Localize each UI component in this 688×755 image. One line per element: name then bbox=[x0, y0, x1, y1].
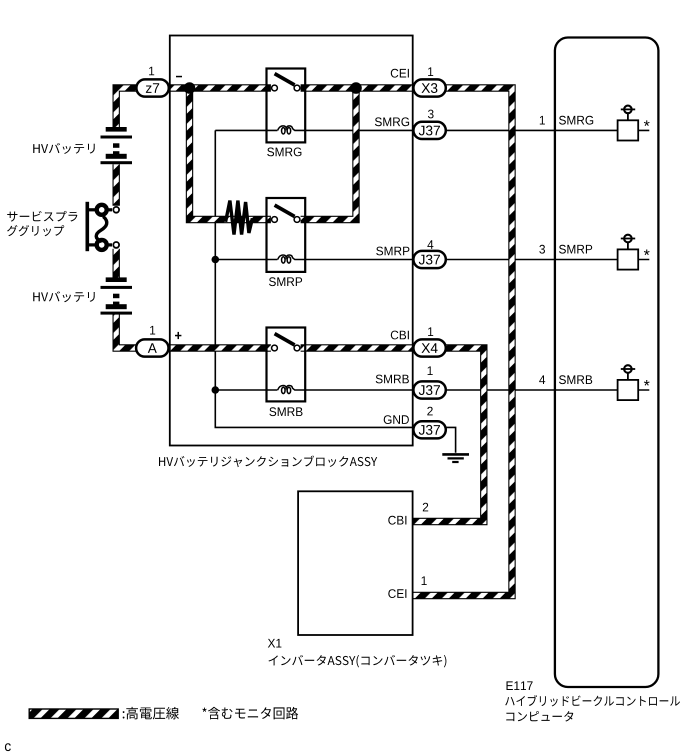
node junction dot SMRP coil bbox=[212, 256, 220, 264]
label GND (GND row label) bbox=[384, 415, 409, 424]
label 4 (E117 pin 4 SMRB) bbox=[539, 375, 545, 384]
service plug grip bbox=[87, 202, 119, 251]
wire SMRG right contact to X3 (high voltage) bbox=[301, 84, 415, 91]
wire service plug to battery2 (high voltage) bbox=[112, 249, 119, 278]
resistor (precharge) bbox=[226, 201, 253, 235]
E117 computer box bbox=[555, 38, 659, 688]
legend high-voltage line sample bar bbox=[29, 709, 118, 718]
label HV battery 2 bbox=[33, 291, 95, 302]
label HV battery junction block ASSY bbox=[159, 456, 377, 468]
wire SMRB coil row y=390 bbox=[215, 389, 414, 391]
wire coil common vertical x=215.3 bbox=[215, 130, 414, 427]
label SMRG (SMRG row label) bbox=[375, 117, 409, 126]
minus polarity mark bbox=[176, 76, 182, 78]
label SMRG (relay label SMRG) bbox=[267, 148, 301, 157]
wire SMRG signal J37 to E117 monitor bbox=[446, 129, 650, 131]
label SMRG (E117 SMRG label) bbox=[559, 116, 593, 125]
plus polarity mark bbox=[175, 332, 181, 339]
wire z7 corner to battery1 (high voltage) bbox=[116, 88, 137, 127]
battery HV battery 1 (HV) bbox=[101, 127, 133, 164]
label hybrid vehicle control line1 bbox=[505, 695, 680, 706]
connector J37 pin 3 SMRG bbox=[413, 122, 445, 139]
wire SMRP right to CEI line x=356 (high voltage) bbox=[301, 88, 356, 220]
label service plug grip line1 bbox=[7, 211, 77, 222]
wire SMRB signal J37 to E117 monitor bbox=[446, 389, 650, 391]
wire z7 to SMRG left contact (high voltage) bbox=[168, 84, 271, 91]
wire battery2 to A oval (high voltage) bbox=[116, 314, 137, 348]
label 1 (pin number above X4) bbox=[428, 327, 433, 336]
wire GND J37 to ground bbox=[446, 427, 456, 452]
wire SMRP signal J37 to E117 monitor bbox=[446, 259, 650, 261]
label SMRB (SMRB row label) bbox=[376, 375, 409, 384]
label SMRB (relay label SMRB) bbox=[269, 407, 302, 416]
relay SMRB bbox=[267, 328, 306, 402]
battery HV battery 2 (HV) bbox=[101, 277, 133, 314]
node junction dot on CEI line right bbox=[350, 82, 362, 94]
ground bbox=[442, 454, 469, 462]
label 3 (E117 pin 3 SMRP) bbox=[539, 245, 545, 254]
connector X4 pin 1 bbox=[413, 339, 445, 356]
wire X4 to inverter CBI (high voltage) bbox=[413, 348, 484, 522]
relay SMRP bbox=[267, 198, 306, 272]
connector z7 pin 1 bbox=[136, 79, 168, 96]
legend high voltage line bbox=[123, 707, 179, 720]
label CEI (CEI row label) bbox=[391, 69, 409, 78]
label 1 (pin number above A) bbox=[150, 326, 155, 335]
wire SMRP coil row y=259.5 bbox=[215, 259, 414, 261]
label X1 (connector X1 name) bbox=[268, 639, 282, 648]
connector X3 pin 1 bbox=[413, 79, 445, 96]
label 3 (pin number above J37 SMRG) bbox=[428, 110, 434, 119]
label 1 (E117 pin 1 SMRG) bbox=[540, 116, 545, 125]
legend monitor circuit note bbox=[202, 707, 298, 720]
label SMRP (E117 SMRP label) bbox=[559, 245, 592, 254]
node junction dot on CEI line left bbox=[184, 82, 196, 94]
connector A pin 1 bbox=[136, 339, 168, 356]
wire A oval to SMRB left contact (high voltage) bbox=[168, 344, 271, 351]
wire SMRB right contact to X4 (high voltage) bbox=[301, 344, 415, 351]
label CBI (inverter CBI label) bbox=[388, 516, 406, 525]
label CEI (inverter CEI label) bbox=[388, 589, 406, 598]
label 2 (inverter pin 2) bbox=[423, 503, 428, 512]
HV battery junction block ASSY box bbox=[170, 36, 413, 446]
label SMRP (relay label SMRP) bbox=[269, 277, 302, 286]
label SMRP (SMRP row label) bbox=[376, 247, 409, 256]
monitor circuit SMRB bbox=[618, 365, 639, 400]
label HV battery 1 bbox=[33, 143, 95, 154]
label service plug grip line2 bbox=[7, 225, 64, 236]
connector J37 pin 2 GND bbox=[413, 421, 445, 438]
label hybrid vehicle control line2 bbox=[506, 711, 573, 721]
wire battery1 to service plug (high voltage) bbox=[112, 164, 119, 206]
label 1 (pin number above X3) bbox=[428, 67, 433, 76]
node junction dot SMRB coil bbox=[212, 386, 220, 394]
label E117 (connector E117 name) bbox=[507, 681, 533, 690]
label 1 (pin number above z7) bbox=[149, 67, 154, 76]
monitor circuit SMRP bbox=[618, 235, 639, 270]
label inverter ASSY bbox=[269, 655, 447, 667]
wire SMRG coil row y=130.4 bbox=[215, 129, 414, 131]
label 1 (pin number above J37 SMRB) bbox=[428, 366, 433, 375]
label c (page marker c) bbox=[5, 743, 11, 751]
label CBI (CBI row label) bbox=[391, 331, 409, 340]
label 4 (pin number above J37 SMRP) bbox=[427, 240, 433, 249]
X1 inverter box bbox=[298, 491, 413, 635]
monitor circuit SMRG bbox=[618, 106, 639, 141]
label 1 (inverter pin 1) bbox=[422, 576, 427, 585]
wire precharge branch down-left x=189.5 (high voltage) bbox=[190, 88, 271, 220]
label SMRB (E117 SMRB label) bbox=[559, 375, 592, 384]
connector J37 pin 1 SMRB bbox=[413, 381, 445, 398]
wire X3 to inverter CEI (high voltage) bbox=[413, 88, 512, 596]
connector J37 pin 4 SMRP bbox=[413, 251, 445, 268]
relay SMRG bbox=[267, 69, 306, 143]
label 2 (pin number above J37 GND) bbox=[427, 407, 432, 416]
